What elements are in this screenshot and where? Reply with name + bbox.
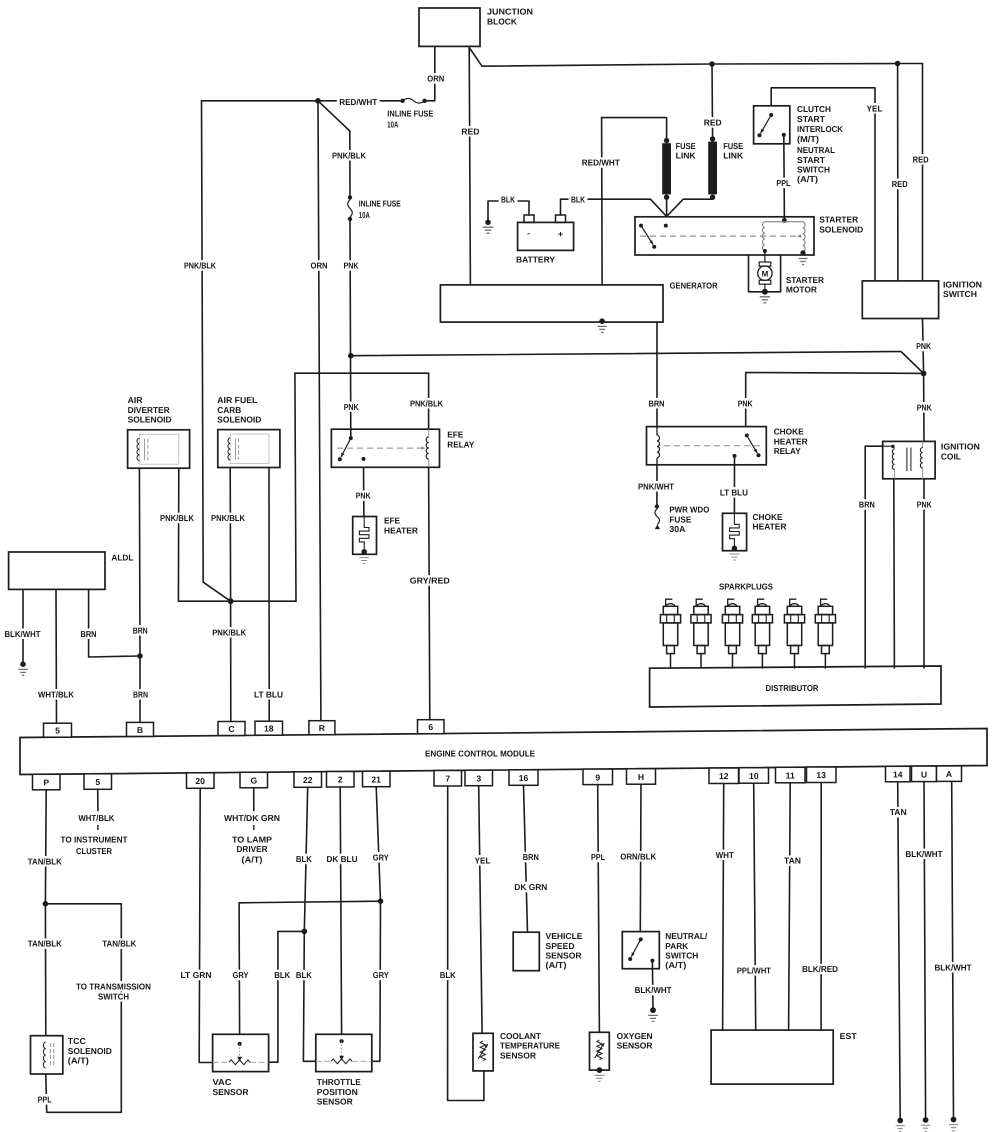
- wire RED/WHT horizontal: [202, 100, 403, 102]
- label CHOKE HEATER RELAY: [774, 427, 804, 437]
- svg-text:U: U: [921, 769, 927, 779]
- starter solenoid: [635, 217, 814, 265]
- svg-text:VAC: VAC: [213, 1077, 232, 1087]
- label AIR DIVERTER SOLENOID: [128, 395, 144, 405]
- svg-text:(A/T): (A/T): [68, 1056, 89, 1066]
- wire RED/WHT vertical to generator: [601, 118, 604, 285]
- label DISTRIBUTOR: [766, 683, 820, 693]
- svg-text:EST: EST: [840, 1031, 858, 1041]
- oxygen sensor: [590, 1032, 610, 1070]
- svg-text:G: G: [250, 776, 257, 786]
- label GRY 21 upper: [370, 852, 391, 863]
- svg-text:RED: RED: [913, 154, 929, 164]
- node PNK bus junction: [348, 353, 354, 359]
- label GRY vac: [230, 970, 251, 981]
- wire ORN junction block drop: [427, 46, 435, 100]
- svg-text:BRN: BRN: [523, 852, 539, 862]
- svg-text:TO LAMP: TO LAMP: [232, 834, 272, 844]
- label BLK mid: [272, 970, 292, 981]
- wire RED to right fuse link: [711, 64, 714, 137]
- svg-text:B: B: [137, 725, 143, 735]
- svg-text:PPL: PPL: [776, 178, 790, 188]
- svg-text:VEHICLE: VEHICLE: [546, 931, 583, 941]
- label 10A top: [387, 119, 398, 129]
- svg-text:LINK: LINK: [723, 150, 744, 160]
- svg-text:PNK: PNK: [916, 341, 932, 351]
- wire RED junction block to generator: [469, 46, 470, 285]
- svg-text:RED: RED: [704, 117, 722, 127]
- label VEHICLE SPEED SENSOR: [546, 931, 583, 941]
- svg-text:IGNITION: IGNITION: [943, 280, 982, 290]
- svg-text:START: START: [797, 155, 826, 165]
- label PNK/BLK divert: [158, 513, 196, 524]
- label TO TRANSMISSION: [74, 981, 153, 992]
- svg-text:P: P: [43, 778, 49, 788]
- svg-text:BLK/RED: BLK/RED: [802, 964, 838, 974]
- label SPARKPLUGS: [719, 582, 773, 592]
- svg-text:+: +: [558, 229, 563, 239]
- label VEHICLE SPEED SENSOR 4: [546, 960, 567, 970]
- svg-text:16: 16: [519, 773, 529, 783]
- label GRY 21 lower: [370, 970, 391, 981]
- wire DK BLU terminal 2 to throttle sensor: [340, 787, 341, 1034]
- svg-text:10A: 10A: [387, 119, 398, 129]
- battery: [518, 215, 574, 250]
- svg-text:DK GRN: DK GRN: [514, 882, 547, 892]
- label VAC SENSOR 2: [213, 1087, 250, 1097]
- label YEL: [865, 103, 885, 114]
- label WHT/BLK aldl: [36, 689, 77, 700]
- ECM top terminal 5: [44, 723, 72, 737]
- label STARTER MOTOR: [786, 275, 825, 285]
- ECM top terminal C: [218, 722, 245, 736]
- label RED ign 2: [911, 154, 931, 165]
- label WHT/BLK 5: [76, 813, 117, 824]
- label RED ign 1: [890, 179, 910, 190]
- svg-text:ORN/BLK: ORN/BLK: [620, 851, 657, 861]
- svg-text:(A/T): (A/T): [242, 854, 263, 864]
- svg-text:SENSOR: SENSOR: [500, 1050, 537, 1060]
- sparkplug 2: [691, 599, 711, 668]
- tick instrument cluster: [97, 825, 99, 830]
- svg-text:PWR WDO: PWR WDO: [669, 505, 709, 515]
- sparkplug 4: [752, 599, 772, 668]
- label STARTER SOLENOID: [819, 215, 859, 225]
- svg-text:BLK: BLK: [440, 970, 457, 980]
- svg-text:ORN: ORN: [427, 74, 444, 84]
- label YEL 3: [472, 855, 492, 866]
- label TO LAMP DRIVER: [232, 834, 272, 844]
- label GRY/RED: [408, 575, 452, 586]
- svg-text:BLK: BLK: [274, 970, 291, 980]
- label BLK/WHT park: [632, 985, 673, 996]
- svg-text:TAN/BLK: TAN/BLK: [28, 856, 63, 866]
- label FUSE LINK right line2: [723, 150, 744, 160]
- label CHOKE HEATER RELAY 3: [774, 446, 801, 456]
- label LT BLU 18: [252, 689, 285, 700]
- svg-text:LT BLU: LT BLU: [720, 487, 748, 497]
- svg-text:SOLENOID: SOLENOID: [217, 415, 261, 425]
- svg-text:30A: 30A: [669, 524, 685, 534]
- svg-text:9: 9: [595, 772, 600, 782]
- wire PNK/BLK to EFE relay coil: [428, 373, 430, 429]
- wire PPL terminal 9 to oxygen sensor: [598, 785, 600, 1033]
- ECM bottom terminal H: [627, 769, 656, 785]
- svg-text:NEUTRAL: NEUTRAL: [797, 145, 835, 155]
- ECM bottom terminal G: [240, 772, 268, 788]
- svg-text:RELAY: RELAY: [774, 446, 801, 456]
- label PPL: [774, 178, 793, 189]
- label FUSE LINK right: [723, 141, 743, 151]
- label PPL/WHT 10: [735, 965, 773, 976]
- wire BLK branch to VAC sensor: [269, 931, 305, 1062]
- label CLUTCH: [797, 104, 831, 114]
- label PNK/BLK EFE: [408, 398, 445, 409]
- svg-text:PNK: PNK: [738, 398, 754, 408]
- label BLK/RED 13: [800, 964, 840, 975]
- wire PNK EFE relay to EFE heater: [363, 467, 365, 516]
- svg-text:DRIVER: DRIVER: [237, 844, 269, 854]
- wire BLK/WHT park switch to ground: [651, 961, 654, 1011]
- svg-text:RED/WHT: RED/WHT: [339, 97, 378, 107]
- label OXYGEN SENSOR 2: [617, 1041, 654, 1051]
- svg-text:EFE: EFE: [384, 516, 400, 526]
- ground EFE heater: [359, 549, 369, 564]
- label LT GRN: [178, 970, 213, 981]
- EST module: [711, 1030, 833, 1084]
- svg-text:RELAY: RELAY: [447, 439, 474, 449]
- label RED/WHT: [337, 97, 380, 108]
- label TO LAMP DRIVER 2: [237, 844, 269, 854]
- wire BLK terminal 7 to coolant sensor: [448, 786, 484, 1101]
- label TAN 11: [782, 855, 803, 866]
- svg-text:PARK: PARK: [665, 941, 689, 951]
- air diverter solenoid: [128, 430, 190, 468]
- svg-text:MOTOR: MOTOR: [786, 285, 818, 295]
- air fuel carb solenoid: [218, 430, 280, 468]
- choke heater relay: [647, 427, 767, 465]
- wire BLK/WHT terminal A to ground: [952, 781, 954, 1119]
- sparkplug 3: [722, 599, 742, 668]
- svg-text:3: 3: [476, 773, 481, 783]
- label PWR WDO: [669, 505, 709, 515]
- label BLK/WHT A: [932, 962, 973, 973]
- wire R-line (line B): [295, 372, 429, 374]
- wire clutch interlock feed YEL: [771, 88, 875, 281]
- throttle position sensor: [316, 1034, 372, 1071]
- svg-text:PNK/BLK: PNK/BLK: [160, 513, 195, 523]
- svg-text:HEATER: HEATER: [753, 522, 788, 532]
- label ORN: [425, 73, 446, 84]
- svg-text:AIR FUEL: AIR FUEL: [217, 395, 257, 405]
- svg-text:PNK: PNK: [356, 491, 372, 501]
- inline fuse 10A top: [400, 99, 426, 104]
- ECM top terminal 6: [418, 720, 445, 734]
- svg-text:CHOKE: CHOKE: [774, 427, 804, 437]
- wire BLK terminal 22 to throttle sensor: [303, 787, 315, 1061]
- svg-text:SPEED: SPEED: [546, 941, 575, 951]
- wire knot to R-line: [231, 600, 296, 602]
- wire ORN/BLK terminal H to park switch: [639, 784, 642, 931]
- label START: [797, 114, 826, 124]
- EFE relay: [331, 429, 439, 467]
- label RED fuse link: [702, 117, 724, 128]
- label THROTTLE POSITION SENSOR: [317, 1077, 361, 1087]
- svg-text:BRN: BRN: [649, 398, 665, 408]
- svg-text:SWITCH: SWITCH: [797, 164, 830, 174]
- ECM bottom terminal P: [33, 774, 61, 790]
- clutch start interlock switch: [754, 106, 790, 144]
- ECM top terminal B: [127, 722, 154, 736]
- svg-text:10: 10: [749, 771, 759, 781]
- svg-text:HEATER: HEATER: [774, 436, 809, 446]
- svg-text:LINK: LINK: [676, 150, 697, 160]
- svg-text:TAN: TAN: [784, 856, 801, 866]
- svg-text:EFE: EFE: [447, 430, 463, 440]
- svg-text:H: H: [638, 772, 644, 782]
- svg-text:NEUTRAL/: NEUTRAL/: [665, 931, 708, 941]
- svg-text:DIVERTER: DIVERTER: [128, 405, 171, 415]
- wire GRY terminal 21 to throttle sensor: [372, 787, 381, 1062]
- label STARTER SOLENOID line2: [819, 224, 863, 234]
- svg-text:BRN: BRN: [859, 500, 875, 510]
- ground wire A: [949, 1117, 958, 1131]
- svg-text:CHOKE: CHOKE: [753, 512, 783, 522]
- label NEUTRAL PARK SWITCH 4: [665, 960, 686, 970]
- wire PNK bus to choke relay (line C): [746, 373, 924, 427]
- label BRN gen: [646, 398, 666, 409]
- wire TAN/BLK inside TCC and PPL out: [45, 904, 121, 1113]
- label PNK efe heater: [354, 490, 373, 501]
- wire TAN terminal 11 to EST: [789, 783, 791, 1030]
- wire BLK battery positive to starter solenoid: [561, 199, 667, 216]
- svg-text:CARB: CARB: [217, 405, 241, 415]
- svg-text:BRN: BRN: [133, 689, 148, 699]
- svg-text:RED/WHT: RED/WHT: [582, 158, 621, 168]
- ground battery negative: [483, 220, 494, 234]
- label AIR FUEL CARB SOLENOID 2: [217, 405, 241, 415]
- svg-text:TO INSTRUMENT: TO INSTRUMENT: [61, 834, 129, 844]
- label THROTTLE POSITION SENSOR 2: [317, 1087, 358, 1097]
- fuse link left: [662, 138, 671, 200]
- label OXYGEN SENSOR: [617, 1031, 653, 1041]
- label EFE HEATER: [384, 516, 400, 526]
- label WHT 12: [713, 850, 736, 861]
- svg-text:SWITCH: SWITCH: [98, 992, 129, 1002]
- node BLK branch junction: [302, 929, 308, 935]
- label FUSE LINK left: [676, 141, 696, 151]
- wire PNK ignition coil to distributor: [923, 479, 925, 668]
- wire PNK/BLK air fuel to terminal C: [229, 468, 232, 722]
- label PPL 9: [589, 852, 608, 863]
- svg-text:22: 22: [303, 775, 313, 785]
- label 10A second: [359, 210, 370, 220]
- wire PNK to ignition coil: [923, 373, 925, 441]
- node knot junction: [228, 598, 234, 604]
- label COOLANT TEMPERATURE SENSOR 2: [500, 1041, 560, 1051]
- ground wire U: [921, 1117, 930, 1131]
- label AIR DIVERTER SOLENOID 3: [128, 415, 172, 425]
- label IGNITION SWITCH: [943, 280, 982, 290]
- svg-text:WHT/BLK: WHT/BLK: [38, 689, 75, 699]
- label BRN aldl: [79, 629, 99, 640]
- label NEUTRAL PARK SWITCH 2: [665, 941, 689, 951]
- ECM bottom terminal 11: [776, 767, 806, 783]
- ground park switch: [648, 1007, 658, 1021]
- label PNK/BLK left: [182, 260, 218, 271]
- wire LT BLU choke relay to choke heater: [733, 456, 735, 513]
- svg-text:ALDL: ALDL: [111, 553, 133, 563]
- label CHOKE HEATER RELAY 2: [774, 436, 809, 446]
- label ORN/BLK: [618, 851, 658, 862]
- svg-text:CLUSTER: CLUSTER: [76, 846, 113, 856]
- wire YEL terminal 3 to coolant sensor: [479, 786, 482, 1034]
- neutral park switch: [622, 932, 659, 969]
- label BRN to B: [131, 689, 150, 700]
- svg-text:PNK/BLK: PNK/BLK: [332, 150, 367, 160]
- label TAN/BLK 2: [25, 938, 64, 949]
- label (A/T): [797, 174, 818, 184]
- svg-text:SWITCH: SWITCH: [665, 951, 698, 961]
- ECM bottom terminal 12: [709, 768, 739, 784]
- fuse link right: [708, 136, 717, 200]
- svg-text:DK BLU: DK BLU: [327, 854, 358, 864]
- ignition switch: [862, 281, 938, 319]
- label START 2: [797, 155, 826, 165]
- label BLK/WHT aldl: [2, 629, 43, 640]
- svg-text:PNK/BLK: PNK/BLK: [410, 398, 444, 408]
- label (M/T): [797, 134, 819, 144]
- svg-text:PNK: PNK: [917, 402, 933, 412]
- label TCC SOLENOID 2: [68, 1046, 112, 1056]
- label BLK/WHT U: [903, 849, 944, 860]
- node TAN/BLK junction: [43, 901, 49, 907]
- svg-text:TCC: TCC: [68, 1036, 86, 1046]
- svg-text:RED: RED: [461, 126, 479, 136]
- svg-text:7: 7: [445, 774, 450, 784]
- label AIR DIVERTER SOLENOID 2: [128, 405, 171, 415]
- label BRN vert: [131, 625, 150, 636]
- svg-text:SENSOR: SENSOR: [213, 1087, 250, 1097]
- tick lamp driver: [253, 825, 255, 830]
- svg-text:YEL: YEL: [475, 855, 491, 865]
- label BRN 16: [521, 852, 541, 863]
- label ALDL: [111, 553, 133, 563]
- label FUSE 30A: [669, 514, 691, 524]
- svg-text:SWITCH: SWITCH: [943, 289, 977, 299]
- pwr wdo fuse 30A: [655, 504, 660, 529]
- sparkplug 1: [660, 599, 680, 668]
- label EFE HEATER line2: [384, 525, 419, 535]
- wire BRN ALDL join: [89, 589, 140, 657]
- label NEUTRAL PARK SWITCH 3: [665, 951, 698, 961]
- label RED/WHT gen: [580, 157, 622, 168]
- wire ignition coil secondary to distributor: [893, 479, 896, 668]
- svg-text:(A/T): (A/T): [797, 174, 818, 184]
- ECM bottom terminal 22: [294, 772, 322, 788]
- wire BRN air diverter to terminal B: [138, 468, 141, 722]
- label TAN 14: [888, 807, 909, 818]
- svg-text:BLK: BLK: [501, 195, 516, 205]
- label TO INSTRUMENT CLUSTER 2: [76, 846, 113, 856]
- ground wire 14: [896, 1118, 905, 1132]
- svg-text:-: -: [527, 228, 530, 238]
- label AIR FUEL CARB SOLENOID: [217, 395, 257, 405]
- label ENGINE CONTROL MODULE: [425, 749, 535, 759]
- ignition coil: [883, 441, 935, 478]
- svg-text:RED: RED: [892, 179, 908, 189]
- wire PNK/WHT choke relay down: [656, 465, 658, 507]
- label ORN mid: [308, 260, 329, 271]
- wire top feed bus: [469, 48, 922, 67]
- svg-text:PPL/WHT: PPL/WHT: [737, 965, 772, 975]
- svg-text:WHT/BLK: WHT/BLK: [78, 813, 115, 823]
- distributor: [650, 666, 941, 707]
- svg-text:GRY: GRY: [233, 970, 249, 980]
- wire LT BLU air fuel to terminal 18: [268, 468, 270, 722]
- wire PNK/BLK left long: [202, 101, 231, 601]
- ECM bottom terminal 10: [739, 768, 769, 784]
- wire BRN ignition coil to distributor: [865, 446, 883, 668]
- generator: [440, 285, 663, 322]
- label DK GRN: [512, 882, 549, 893]
- sparkplug 6: [815, 599, 835, 668]
- label BLK 22 lower: [294, 970, 314, 981]
- svg-text:POSITION: POSITION: [317, 1087, 358, 1097]
- label TO TRANSMISSION 2: [97, 992, 130, 1002]
- label CHOKE HEATER line2: [753, 522, 788, 532]
- label BLK left: [499, 194, 518, 205]
- svg-text:COOLANT: COOLANT: [500, 1031, 542, 1041]
- wire BRN terminal 16 to vehicle speed sensor: [524, 785, 528, 932]
- svg-text:BLOCK: BLOCK: [487, 17, 518, 27]
- node RED feed to fuse link: [709, 61, 715, 67]
- svg-text:WHT/DK GRN: WHT/DK GRN: [224, 813, 280, 823]
- ECM bottom terminal 20: [187, 773, 215, 789]
- label NEUTRAL PARK SWITCH: [665, 931, 708, 941]
- svg-text:STARTER: STARTER: [819, 215, 859, 225]
- svg-text:ORN: ORN: [311, 261, 328, 271]
- svg-text:BLK: BLK: [571, 195, 586, 205]
- wire RED/WHT to left fuse link: [602, 118, 667, 141]
- node PNK distribution: [921, 371, 927, 377]
- wire PPL clutch to starter solenoid: [783, 135, 786, 221]
- svg-text:TAN/BLK: TAN/BLK: [102, 939, 137, 949]
- svg-text:A: A: [946, 769, 952, 779]
- engine control module: [20, 729, 987, 775]
- label TCC SOLENOID 3: [68, 1056, 89, 1066]
- svg-text:BLK: BLK: [296, 854, 313, 864]
- wire air diverter right to knot: [178, 468, 230, 601]
- label INLINE FUSE 10A second: [359, 199, 401, 209]
- VAC sensor: [213, 1034, 269, 1071]
- wire right fuse link to starter solenoid: [667, 197, 713, 216]
- label BRN coil: [857, 499, 877, 510]
- label THROTTLE POSITION SENSOR 3: [317, 1097, 354, 1107]
- label IGNITION COIL: [941, 442, 980, 452]
- EFE heater: [353, 517, 377, 555]
- label EST: [840, 1031, 858, 1041]
- svg-text:TEMPERATURE: TEMPERATURE: [500, 1041, 560, 1051]
- svg-text:ENGINE CONTROL MODULE: ENGINE CONTROL MODULE: [425, 749, 535, 759]
- svg-text:DISTRIBUTOR: DISTRIBUTOR: [766, 683, 820, 693]
- node junction RED/WHT-ORN-PNK: [315, 98, 321, 104]
- svg-text:(A/T): (A/T): [546, 960, 567, 970]
- label PNK/BLK to C: [210, 627, 248, 638]
- junction block label: [487, 7, 533, 17]
- label EFE RELAY: [447, 430, 463, 440]
- svg-text:2: 2: [338, 775, 343, 785]
